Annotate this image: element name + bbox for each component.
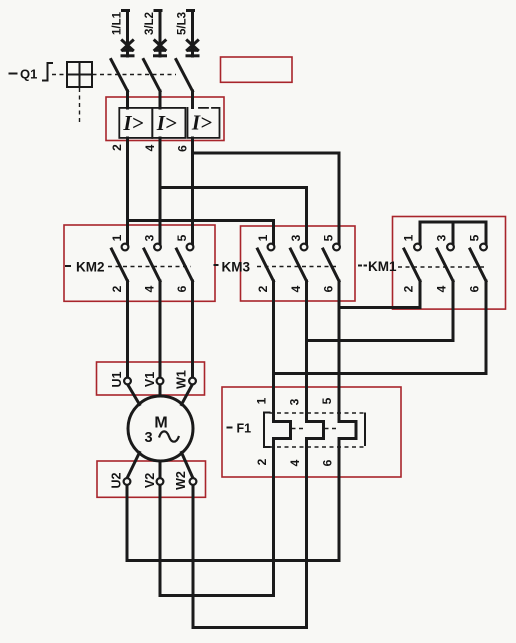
svg-text:1: 1	[256, 234, 270, 241]
svg-text:1: 1	[402, 234, 416, 241]
svg-text:F1: F1	[237, 422, 252, 436]
svg-text:5: 5	[320, 397, 334, 404]
svg-text:U1: U1	[110, 371, 124, 387]
svg-text:3: 3	[289, 234, 303, 241]
svg-text:6: 6	[175, 285, 189, 292]
svg-text:2: 2	[110, 285, 124, 292]
svg-text:1: 1	[255, 397, 269, 404]
svg-text:4: 4	[143, 285, 157, 292]
svg-text:3: 3	[144, 430, 152, 446]
svg-text:V1: V1	[143, 372, 157, 387]
svg-text:2: 2	[256, 285, 270, 292]
svg-text:2: 2	[110, 144, 124, 151]
svg-text:KM2: KM2	[76, 260, 105, 275]
svg-text:3: 3	[288, 398, 302, 405]
svg-text:M: M	[154, 415, 167, 432]
svg-text:Q1: Q1	[20, 67, 37, 82]
svg-text:KM1: KM1	[368, 259, 397, 274]
svg-text:5/L3: 5/L3	[177, 12, 189, 35]
svg-text:6: 6	[322, 285, 336, 292]
svg-text:4: 4	[143, 144, 157, 151]
svg-text:I>: I>	[122, 111, 143, 135]
svg-text:2: 2	[255, 458, 269, 465]
svg-text:6: 6	[176, 145, 190, 152]
svg-text:I>: I>	[156, 111, 177, 135]
svg-text:6: 6	[468, 285, 482, 292]
svg-text:I>: I>	[191, 111, 212, 135]
svg-text:4: 4	[288, 459, 302, 466]
svg-text:5: 5	[322, 234, 336, 241]
svg-text:4: 4	[289, 285, 303, 292]
svg-text:5: 5	[175, 234, 189, 241]
svg-text:W1: W1	[174, 370, 188, 389]
svg-text:3/L2: 3/L2	[144, 12, 156, 35]
svg-text:KM3: KM3	[222, 260, 251, 275]
svg-text:4: 4	[435, 285, 449, 292]
svg-text:5: 5	[468, 234, 482, 241]
svg-text:W2: W2	[174, 471, 188, 490]
svg-text:U2: U2	[109, 472, 123, 488]
svg-text:1: 1	[110, 234, 124, 241]
svg-text:1/L1: 1/L1	[112, 11, 124, 35]
svg-text:3: 3	[143, 234, 157, 241]
svg-text:2: 2	[402, 285, 416, 292]
svg-text:V2: V2	[143, 473, 157, 488]
svg-text:6: 6	[321, 459, 335, 466]
svg-text:3: 3	[435, 234, 449, 241]
